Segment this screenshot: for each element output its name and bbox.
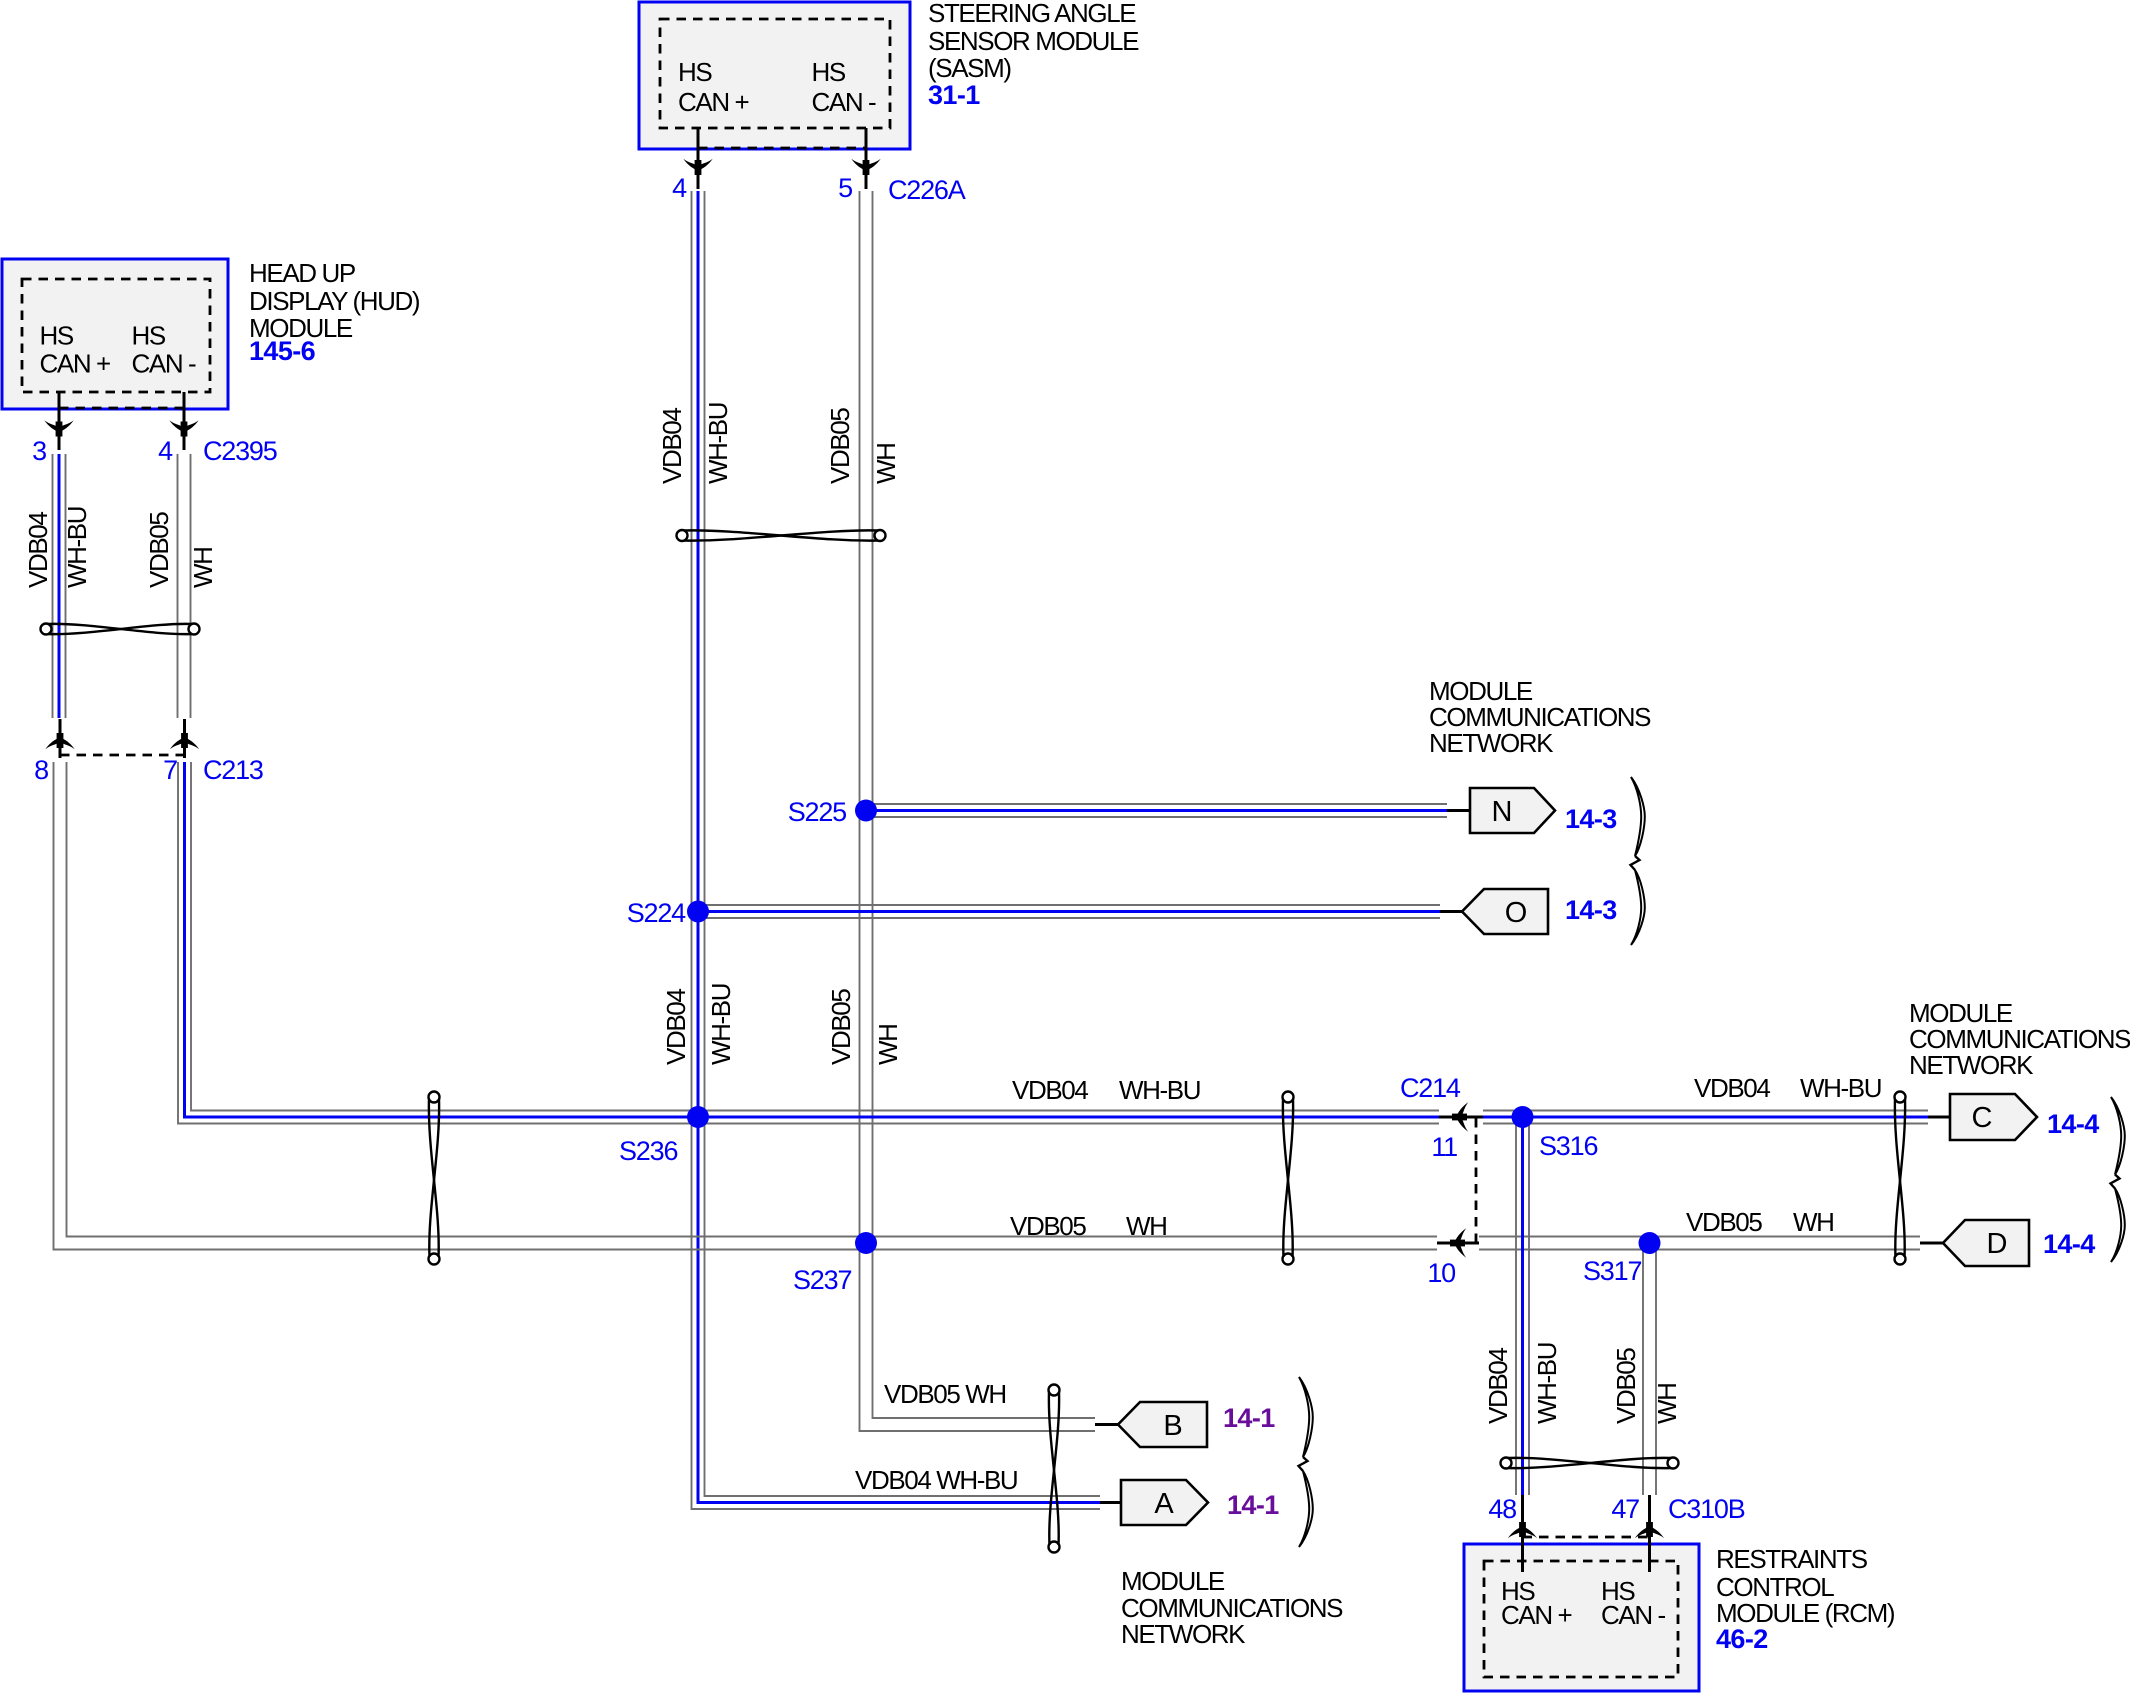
svg-text:145-6: 145-6 xyxy=(249,336,316,366)
connector C214 labels xyxy=(1400,1073,1461,1288)
svg-text:S224: S224 xyxy=(627,898,686,928)
module HUD pin labels HS CAN xyxy=(40,321,197,379)
svg-text:WH: WH xyxy=(1126,1211,1167,1241)
module HUD pin stub HS CAN + xyxy=(58,392,61,450)
rotated wire labels on RCM wires xyxy=(1483,1343,1682,1424)
twisted-pair symbol crossing runs near tags B and A xyxy=(1049,1385,1060,1553)
wire label VDB05 WH on main run left of C214 xyxy=(1010,1211,1167,1241)
connector C213 dashed mating line xyxy=(60,754,185,757)
svg-text:3: 3 xyxy=(32,436,46,466)
svg-text:S317: S317 xyxy=(1583,1256,1641,1286)
twisted-pair symbol crossing main runs at middle xyxy=(1283,1092,1294,1265)
svg-text:WH: WH xyxy=(873,1024,903,1065)
svg-text:VDB05 WH: VDB05 WH xyxy=(884,1379,1006,1409)
wire VDB04 WH-BU from C213 pin 7 down then right through S236 to C214 pin 11 xyxy=(178,762,1439,1124)
twisted-pair symbol on RCM wires xyxy=(1501,1458,1679,1469)
svg-text:VDB04 WH-BU: VDB04 WH-BU xyxy=(855,1465,1017,1495)
connector C2395 pin 4 arrow xyxy=(169,420,198,436)
svg-text:14-1: 14-1 xyxy=(1227,1490,1279,1520)
splice S237 xyxy=(855,1232,877,1254)
svg-text:5: 5 xyxy=(838,173,852,203)
svg-text:VDB05: VDB05 xyxy=(1611,1348,1641,1424)
brace for tags C and D xyxy=(2111,1097,2125,1175)
module SASM inner dashed connector outline xyxy=(660,19,890,128)
svg-text:WH-BU: WH-BU xyxy=(1532,1343,1562,1424)
svg-text:WH-BU: WH-BU xyxy=(1800,1073,1881,1103)
module RCM pin stub HS CAN - xyxy=(1648,1495,1651,1572)
connector C226A pin 5 arrow xyxy=(851,159,880,175)
wire VDB05 WH from HUD pin 4 to C213 pin 7 xyxy=(178,454,191,718)
wire VDB05 WH from C214 pin 10 through S317 to tag D xyxy=(1479,1237,1920,1250)
module HUD box xyxy=(2,259,228,409)
svg-text:8: 8 xyxy=(34,755,48,785)
svg-text:WH-BU: WH-BU xyxy=(706,984,736,1065)
svg-text:C214: C214 xyxy=(1400,1073,1461,1103)
svg-text:VDB05: VDB05 xyxy=(1686,1207,1762,1237)
wire VDB04 WH-BU from HUD pin 3 to C213 pin 8 xyxy=(53,454,66,718)
connector C213 pin numbers and name xyxy=(34,755,263,785)
svg-text:DISPLAY (HUD): DISPLAY (HUD) xyxy=(249,286,420,316)
svg-text:O: O xyxy=(1505,897,1528,929)
lead to tag A xyxy=(1100,1501,1121,1504)
module RCM inner dashed connector outline xyxy=(1484,1561,1678,1677)
module SASM pin stub HS CAN - xyxy=(865,128,868,189)
wire VDB05 WH vertical from SASM pin 5 through S225,S237 down then right to tag B xyxy=(860,191,1096,1431)
svg-text:WH: WH xyxy=(871,443,901,484)
svg-text:HEAD UP: HEAD UP xyxy=(249,258,355,288)
module SASM pin labels HS CAN xyxy=(678,57,876,117)
svg-text:WH: WH xyxy=(1793,1207,1834,1237)
svg-text:WH-BU: WH-BU xyxy=(62,507,92,588)
module SASM box xyxy=(639,2,910,149)
wire VDB04 WH-BU vertical from SASM pin 4 through S224,S236 down then right to tag A xyxy=(692,191,1101,1509)
svg-text:C: C xyxy=(1972,1102,1993,1134)
off-page connector tag C xyxy=(1950,1094,2037,1140)
rotated wire labels on SASM wires xyxy=(657,403,901,484)
module HUD dashed line between pins on C2395 xyxy=(59,407,184,410)
svg-text:VDB04: VDB04 xyxy=(1694,1073,1770,1103)
svg-text:4: 4 xyxy=(158,436,173,466)
svg-text:CAN +: CAN + xyxy=(678,87,749,117)
module SASM pin stub HS CAN + xyxy=(697,128,700,189)
svg-text:14-3: 14-3 xyxy=(1565,804,1617,834)
heading module communications network near B and A xyxy=(1121,1566,1343,1649)
svg-text:47: 47 xyxy=(1611,1494,1639,1524)
wire bus pair from splice S225 to tag N xyxy=(866,804,1447,817)
twisted-pair symbol on SASM wires xyxy=(677,530,886,541)
module RCM dashed line between pins on C310B xyxy=(1523,1536,1650,1539)
svg-text:B: B xyxy=(1163,1410,1182,1442)
svg-text:14-1: 14-1 xyxy=(1223,1403,1275,1433)
svg-text:STEERING ANGLE: STEERING ANGLE xyxy=(928,0,1136,28)
connector C2395 pin numbers and name xyxy=(32,436,277,466)
module HUD name label xyxy=(249,258,420,366)
svg-text:VDB05: VDB05 xyxy=(1010,1211,1086,1241)
svg-text:NETWORK: NETWORK xyxy=(1121,1619,1246,1649)
wire VDB04 WH-BU from C214 pin 11 through S316 to tag C xyxy=(1483,1111,1928,1124)
off-page connector tag O xyxy=(1462,889,1548,934)
rotated wire labels on middle vertical wires xyxy=(661,984,903,1065)
svg-text:VDB04: VDB04 xyxy=(657,408,687,484)
svg-text:VDB04: VDB04 xyxy=(1012,1075,1088,1105)
twisted-pair symbol on HUD wires xyxy=(41,624,200,635)
svg-text:WH-BU: WH-BU xyxy=(703,403,733,484)
svg-text:S237: S237 xyxy=(793,1265,851,1295)
connector C214 pin 10 arrow xyxy=(1450,1228,1466,1257)
wire VDB04 WH-BU from splice S316 down to RCM pin 48 xyxy=(1516,1117,1529,1495)
svg-text:S236: S236 xyxy=(619,1136,677,1166)
brace for tags N and O xyxy=(1631,777,1645,856)
svg-text:10: 10 xyxy=(1427,1258,1455,1288)
connector C214 pin 10 lead xyxy=(1437,1242,1479,1245)
lead to tag B xyxy=(1095,1423,1118,1426)
svg-text:A: A xyxy=(1154,1488,1174,1520)
svg-text:SENSOR MODULE: SENSOR MODULE xyxy=(928,26,1139,56)
svg-text:11: 11 xyxy=(1431,1132,1457,1162)
svg-text:HS: HS xyxy=(132,321,166,351)
svg-text:48: 48 xyxy=(1488,1494,1516,1524)
svg-text:C310B: C310B xyxy=(1668,1494,1745,1524)
connector C226A pin 4 arrow xyxy=(683,159,712,175)
connector C214 dashed mating line xyxy=(1475,1118,1478,1242)
svg-text:CAN -: CAN - xyxy=(1601,1600,1666,1630)
svg-text:WH-BU: WH-BU xyxy=(1119,1075,1200,1105)
svg-text:CAN -: CAN - xyxy=(132,349,197,379)
wire label VDB04 WH-BU on main run left of C214 xyxy=(1012,1075,1200,1105)
svg-text:VDB05: VDB05 xyxy=(826,989,856,1065)
svg-text:C2395: C2395 xyxy=(203,436,277,466)
svg-text:S225: S225 xyxy=(788,797,846,827)
svg-text:N: N xyxy=(1492,796,1513,828)
connector C213 pin 8 arrow xyxy=(45,733,74,749)
connector C310B pin 48 arrow xyxy=(1508,1522,1537,1538)
module HUD pin stub HS CAN - xyxy=(183,392,186,450)
module RCM pin stub HS CAN + xyxy=(1521,1495,1524,1572)
rotated wire labels on HUD wires xyxy=(23,507,218,588)
splice S225 xyxy=(855,800,877,822)
lead to tag O xyxy=(1440,910,1462,913)
svg-text:S316: S316 xyxy=(1539,1131,1597,1161)
splice S317 xyxy=(1639,1232,1661,1254)
svg-text:CAN +: CAN + xyxy=(40,349,111,379)
module HUD inner dashed connector outline xyxy=(22,279,210,392)
heading module communications network near C and D xyxy=(1909,998,2130,1080)
lead to tag N xyxy=(1447,809,1470,812)
module RCM pin labels HS CAN xyxy=(1501,1576,1666,1630)
svg-text:14-4: 14-4 xyxy=(2043,1229,2095,1259)
svg-text:(SASM): (SASM) xyxy=(928,53,1011,83)
connector C213 pin 7 arrow xyxy=(170,733,199,749)
svg-text:C213: C213 xyxy=(203,755,263,785)
connector C310B pin numbers and name xyxy=(1488,1494,1744,1524)
module RCM name label xyxy=(1716,1544,1895,1654)
off-page connector tag B xyxy=(1118,1402,1207,1447)
svg-text:HS: HS xyxy=(678,57,712,87)
svg-text:31-1: 31-1 xyxy=(928,80,980,110)
off-page connector tag D xyxy=(1943,1220,2029,1266)
svg-text:VDB04: VDB04 xyxy=(23,512,53,588)
svg-text:NETWORK: NETWORK xyxy=(1429,728,1554,758)
wire label VDB04 WH-BU on run right of C214 xyxy=(1694,1073,1881,1103)
svg-text:MODULE: MODULE xyxy=(1121,1566,1225,1596)
twisted-pair symbol crossing main runs at left xyxy=(429,1092,440,1265)
connector C214 pin 11 lead xyxy=(1439,1116,1483,1119)
svg-text:46-2: 46-2 xyxy=(1716,1624,1768,1654)
module RCM box xyxy=(1464,1544,1699,1691)
svg-text:14-3: 14-3 xyxy=(1565,895,1617,925)
wire VDB05 WH from splice S317 down to RCM pin 47 xyxy=(1643,1243,1656,1495)
lead to tag C xyxy=(1928,1116,1950,1119)
wire bus pair from splice S224 to tag O xyxy=(698,905,1440,918)
wire VDB05 WH from C213 pin 8 down then right to C214 pin 10 xyxy=(54,762,1438,1250)
connector C213 pin 8 stub xyxy=(59,719,62,758)
svg-text:VDB04: VDB04 xyxy=(1483,1348,1513,1424)
module SASM dashed line between pins on C226A xyxy=(698,147,866,150)
svg-text:CAN -: CAN - xyxy=(812,87,877,117)
svg-text:WH: WH xyxy=(1652,1383,1682,1424)
svg-text:WH: WH xyxy=(188,547,218,588)
off-page connector tag N xyxy=(1470,788,1555,833)
svg-text:D: D xyxy=(1987,1228,2008,1260)
svg-text:HS: HS xyxy=(40,321,74,351)
svg-text:C226A: C226A xyxy=(888,175,966,205)
splice S236 xyxy=(687,1106,709,1128)
svg-text:HS: HS xyxy=(812,57,846,87)
heading module communications network near N and O xyxy=(1429,676,1651,758)
connector C310B pin 47 arrow xyxy=(1635,1522,1664,1538)
connector C2395 pin 3 arrow xyxy=(44,420,73,436)
twisted-pair symbol crossing runs near tags C and D xyxy=(1895,1092,1906,1265)
connector C214 pin 11 arrow xyxy=(1452,1102,1468,1131)
svg-text:VDB04: VDB04 xyxy=(661,989,691,1065)
splice S316 xyxy=(1512,1106,1534,1128)
connector C226A pin numbers and name xyxy=(672,173,966,205)
lead to tag D xyxy=(1920,1242,1943,1245)
svg-text:RESTRAINTS: RESTRAINTS xyxy=(1716,1544,1868,1574)
svg-text:14-4: 14-4 xyxy=(2047,1109,2099,1139)
svg-text:CAN +: CAN + xyxy=(1501,1600,1572,1630)
module SASM name label xyxy=(928,0,1139,110)
wire label VDB05 WH on run right of C214 xyxy=(1686,1207,1834,1237)
brace for tags B and A xyxy=(1299,1377,1313,1457)
connector C213 pin 7 stub xyxy=(183,719,186,758)
svg-text:NETWORK: NETWORK xyxy=(1909,1050,2034,1080)
off-page connector tag A xyxy=(1121,1480,1208,1525)
svg-text:7: 7 xyxy=(163,755,177,785)
splice S224 xyxy=(687,901,709,923)
svg-text:4: 4 xyxy=(672,173,687,203)
svg-text:VDB05: VDB05 xyxy=(825,408,855,484)
svg-text:VDB05: VDB05 xyxy=(144,512,174,588)
